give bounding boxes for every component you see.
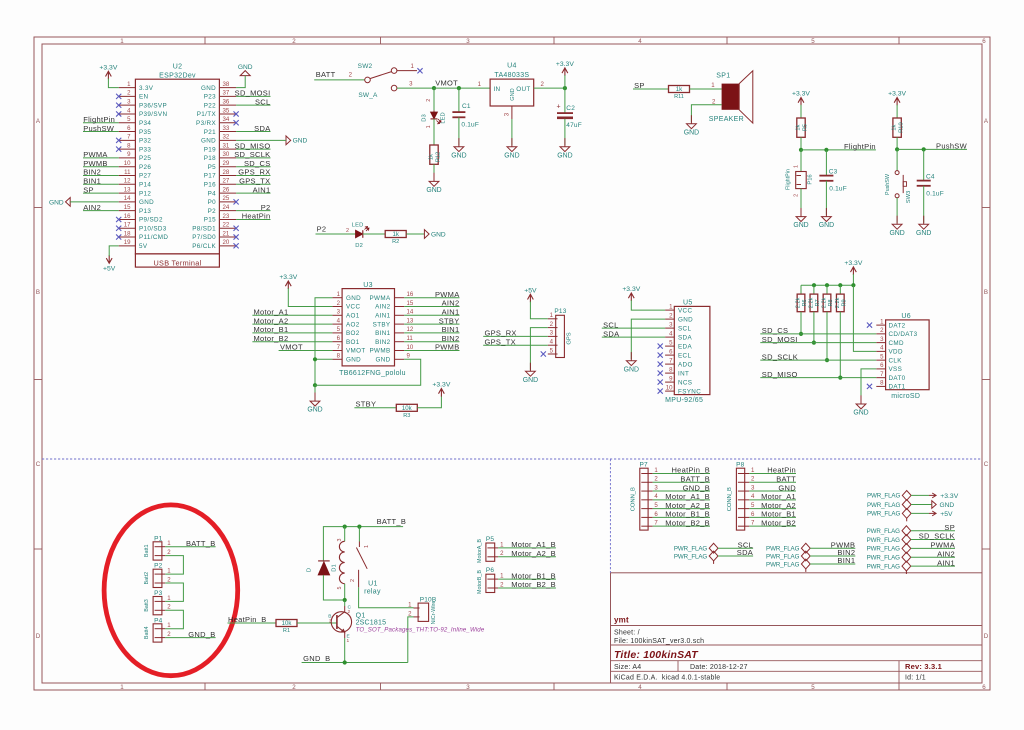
ic U2 left pin numbers xyxy=(124,81,131,246)
wire U2 PWMA xyxy=(83,157,119,159)
label BIN2 right xyxy=(442,334,460,343)
label AIN2 xyxy=(83,203,101,212)
svg-text:2.2k: 2.2k xyxy=(822,297,828,308)
svg-text:D: D xyxy=(984,633,989,640)
svg-text:10: 10 xyxy=(407,344,414,351)
junction VMOT 1 xyxy=(432,86,436,90)
label FlightPin xyxy=(83,115,115,124)
ic U3 body xyxy=(342,289,394,366)
wire P7 BATT_B xyxy=(653,481,710,483)
wire pwr_flag SCL left xyxy=(718,547,753,549)
svg-text:2: 2 xyxy=(793,194,799,197)
wire D2 to R2 xyxy=(363,233,385,235)
ic U5 reference xyxy=(683,300,693,307)
svg-text:P0: P0 xyxy=(208,199,217,206)
svg-text:AIN2: AIN2 xyxy=(375,304,391,311)
frame column ticks xyxy=(205,37,899,690)
svg-text:D: D xyxy=(306,568,312,572)
connector P16 xyxy=(786,169,814,190)
wire node to SW3 xyxy=(896,149,898,170)
svg-text:Motor_B2_B: Motor_B2_B xyxy=(511,580,556,589)
junction U3 GND bottom xyxy=(313,383,317,387)
wire +3.3V to R5 xyxy=(800,105,802,118)
capacitor C3 xyxy=(819,168,847,192)
wire pwr_flag SDA left xyxy=(718,555,753,557)
relay U1 reference xyxy=(368,581,378,588)
ic U5 body xyxy=(674,306,710,394)
svg-text:R10: R10 xyxy=(898,122,904,132)
transistor Q1 2SC1815 xyxy=(328,600,351,663)
svg-text:36: 36 xyxy=(223,98,230,105)
svg-text:P1/TX: P1/TX xyxy=(197,111,217,118)
svg-text:HeatPin: HeatPin xyxy=(767,466,796,475)
svg-text:P25: P25 xyxy=(139,155,151,162)
svg-text:1: 1 xyxy=(167,568,171,575)
ground D3 branch xyxy=(426,173,441,194)
svg-text:P16: P16 xyxy=(808,174,814,184)
svg-text:SW3: SW3 xyxy=(906,191,912,204)
svg-text:PWR_FLAG: PWR_FLAG xyxy=(867,502,901,509)
svg-text:17: 17 xyxy=(124,222,131,229)
svg-text:GND: GND xyxy=(853,410,868,417)
svg-text:R8: R8 xyxy=(828,299,834,306)
label Motor_A1 xyxy=(254,308,289,317)
junction FlightPin C3 xyxy=(824,148,828,152)
wire P3 to P4 xyxy=(165,610,183,628)
svg-text:P7/SD0: P7/SD0 xyxy=(192,234,216,241)
svg-text:21: 21 xyxy=(223,230,230,237)
svg-text:2: 2 xyxy=(292,684,296,691)
svg-text:P9/SD2: P9/SD2 xyxy=(139,217,163,224)
svg-text:0.1uF: 0.1uF xyxy=(829,186,847,193)
wire U3 Motor_B1 xyxy=(252,332,332,334)
svg-text:SD_SCLK: SD_SCLK xyxy=(919,532,955,541)
svg-text:11: 11 xyxy=(407,335,414,342)
label PWMA xyxy=(83,150,108,159)
svg-text:AIN1: AIN1 xyxy=(442,308,460,317)
svg-text:C1: C1 xyxy=(462,103,471,110)
wire node to P16 xyxy=(800,150,802,172)
resistor R9 pull-up xyxy=(835,294,847,312)
connector P8 CONN_B xyxy=(727,461,755,530)
svg-text:D3: D3 xyxy=(422,114,428,121)
svg-text:AO1: AO1 xyxy=(346,313,360,320)
label pwr_flag BIN1 xyxy=(837,556,855,565)
ic U3 left pin numbers xyxy=(337,291,341,360)
svg-text:PWMB: PWMB xyxy=(435,343,460,352)
wire VMOT to C1 xyxy=(458,88,460,112)
svg-text:0.1uF: 0.1uF xyxy=(461,121,479,128)
svg-text:GND: GND xyxy=(375,357,390,364)
svg-text:SW2: SW2 xyxy=(358,63,373,70)
svg-text:CONN_B: CONN_B xyxy=(727,487,733,511)
svg-text:USB Terminal: USB Terminal xyxy=(153,258,201,267)
pwr_flag SD_SCLK xyxy=(867,535,911,545)
svg-text:10k: 10k xyxy=(402,405,413,412)
svg-text:SP: SP xyxy=(944,523,955,532)
svg-text:Rev: 3.3.1: Rev: 3.3.1 xyxy=(905,662,942,671)
svg-text:P14: P14 xyxy=(139,181,151,188)
svg-text:GND: GND xyxy=(684,129,699,136)
no-connect x U6 pins 1 8 xyxy=(867,323,872,390)
svg-text:Motor_A2: Motor_A2 xyxy=(761,501,796,510)
svg-text:24: 24 xyxy=(223,204,230,211)
svg-text:+5V: +5V xyxy=(524,288,537,295)
svg-text:BATT: BATT xyxy=(316,70,336,79)
led D2 xyxy=(352,222,369,248)
svg-text:32: 32 xyxy=(223,134,230,141)
svg-text:VDD: VDD xyxy=(889,349,903,356)
svg-text:1k: 1k xyxy=(892,124,898,130)
svg-text:P23: P23 xyxy=(204,94,216,101)
wire rail to R8 xyxy=(826,285,828,294)
svg-text:Motor_A2: Motor_A2 xyxy=(254,316,289,325)
svg-text:AIN2: AIN2 xyxy=(442,299,460,308)
svg-text:BATT_B: BATT_B xyxy=(680,474,710,483)
label P7 Motor_B1_B xyxy=(665,510,710,519)
wire rail to VDD pin4 xyxy=(853,285,876,351)
junction R9 bus xyxy=(838,376,842,380)
label GPS_RX xyxy=(485,329,517,338)
regulator U4 value TA48033S xyxy=(494,72,529,79)
wire P7 Motor_B1_B xyxy=(653,516,710,518)
wire U2 pin32 to GND label xyxy=(236,139,286,141)
pwr_flag GND xyxy=(867,500,911,510)
wire P7 Motor_A1_B xyxy=(653,499,710,501)
svg-text:BIN1: BIN1 xyxy=(83,176,101,185)
resistor R10 xyxy=(892,118,905,137)
wire U3 VMOT xyxy=(279,350,333,352)
svg-text:P2: P2 xyxy=(317,225,327,234)
svg-text:GPS_TX: GPS_TX xyxy=(239,176,270,185)
ic U2 reference xyxy=(173,64,183,71)
global label GND U2 pin32 xyxy=(286,136,307,145)
svg-text:Batt4: Batt4 xyxy=(144,627,150,640)
no-connect x SW2 pin1 xyxy=(417,68,422,73)
svg-text:P4: P4 xyxy=(208,190,217,197)
ic U5 pin stubs xyxy=(665,310,674,391)
pwr_flag +5V xyxy=(867,509,911,519)
svg-text:P8: P8 xyxy=(736,461,745,468)
wire P2 to P3 xyxy=(165,583,183,601)
wire pwr_flag BIN2 xyxy=(810,555,855,557)
pin number U4 1 xyxy=(478,81,482,88)
svg-text:SPEAKER: SPEAKER xyxy=(709,116,744,123)
svg-text:GND: GND xyxy=(940,502,955,509)
connector P4 Batt4 xyxy=(144,617,171,642)
label SD_CS xyxy=(244,159,271,168)
svg-text:C: C xyxy=(984,461,989,468)
svg-text:VCC: VCC xyxy=(678,307,692,314)
svg-text:GND: GND xyxy=(201,138,216,145)
wire SW2 pin1 xyxy=(397,70,417,72)
ground U5 xyxy=(624,352,639,373)
svg-text:BIN1: BIN1 xyxy=(375,330,391,337)
wire U2 SDA xyxy=(236,131,270,133)
svg-text:2: 2 xyxy=(426,99,432,102)
wire pwr_flag +3.3V xyxy=(911,494,929,496)
ic U5 pin numbers xyxy=(666,303,673,391)
svg-text:2: 2 xyxy=(167,576,171,583)
svg-text:6: 6 xyxy=(982,684,986,691)
svg-text:relay: relay xyxy=(364,588,381,595)
svg-text:16: 16 xyxy=(407,291,414,298)
svg-text:Id: 1/1: Id: 1/1 xyxy=(905,675,926,682)
no-connect x U5 pins 5-10 xyxy=(658,344,663,394)
pwr_flag SDA left xyxy=(674,551,718,561)
title block id xyxy=(905,675,926,682)
svg-text:GND: GND xyxy=(624,366,639,373)
label SCL U5 xyxy=(603,320,619,329)
pwr_flag BIN2 xyxy=(766,551,810,561)
svg-text:Motor_A1: Motor_A1 xyxy=(254,308,289,317)
title block size/date xyxy=(614,664,748,671)
svg-text:SD_SCLK: SD_SCLK xyxy=(234,150,270,159)
svg-text:PWMA: PWMA xyxy=(370,295,391,302)
junction +3.3V C2 xyxy=(563,86,567,90)
svg-text:Size: A4: Size: A4 xyxy=(614,664,641,671)
svg-text:P6: P6 xyxy=(486,567,495,574)
svg-text:FlightPin: FlightPin xyxy=(786,169,792,190)
wire SP1 pin2 to GND xyxy=(691,105,721,122)
svg-text:5: 5 xyxy=(811,38,815,45)
wire P8 Motor_B1 xyxy=(749,516,796,518)
ground U4 xyxy=(504,138,519,159)
svg-text:10: 10 xyxy=(124,160,131,167)
label SD_MISO U6 xyxy=(762,370,798,379)
svg-text:10: 10 xyxy=(666,384,673,391)
svg-text:P12: P12 xyxy=(139,190,151,197)
relay U1 contact xyxy=(350,527,370,588)
wire FlightPin net xyxy=(801,149,876,151)
svg-text:3.3V: 3.3V xyxy=(139,85,154,92)
wire +3.3V to C2 xyxy=(564,88,566,113)
svg-text:R3: R3 xyxy=(403,413,410,419)
label SDA U5 xyxy=(603,329,619,338)
svg-text:PWMA: PWMA xyxy=(435,290,460,299)
svg-text:1: 1 xyxy=(167,540,171,547)
ic U2 left pin stubs xyxy=(119,88,136,246)
resistor R1 xyxy=(276,620,297,635)
wire Motor_A2_B xyxy=(498,556,556,558)
svg-text:FSYNC: FSYNC xyxy=(678,388,701,395)
svg-text:P17: P17 xyxy=(204,173,216,180)
wire R5 to FlightPin node xyxy=(800,137,802,150)
junction rail R7 xyxy=(812,283,816,287)
svg-text:TO_SOT_Packages_THT:TO-92_Inli: TO_SOT_Packages_THT:TO-92_Inline_Wide xyxy=(356,627,485,634)
svg-text:38: 38 xyxy=(223,81,230,88)
svg-text:PushSW: PushSW xyxy=(885,173,891,195)
label SD_MOSI U6 xyxy=(762,335,798,344)
svg-text:23: 23 xyxy=(223,213,230,220)
resistor R2 xyxy=(385,231,406,246)
ic U6 body xyxy=(886,320,930,390)
wire U2 PushSW xyxy=(83,131,119,133)
svg-text:P35: P35 xyxy=(139,129,151,136)
svg-text:B: B xyxy=(36,289,40,296)
svg-text:ESP32Dev: ESP32Dev xyxy=(159,72,196,79)
label P8 Motor_B1 xyxy=(761,510,796,519)
pwr_flag BIN1 xyxy=(766,559,810,569)
svg-text:P2: P2 xyxy=(261,203,271,212)
pin number D2 2 xyxy=(346,228,349,234)
label pwr_flag SD_SCLK xyxy=(919,532,955,541)
svg-text:28: 28 xyxy=(223,169,230,176)
wire P16 to GND xyxy=(800,189,802,215)
svg-text:1: 1 xyxy=(426,125,432,128)
svg-text:FlightPin: FlightPin xyxy=(844,142,876,151)
svg-text:U5: U5 xyxy=(683,300,693,307)
wire U3 BIN2 right xyxy=(404,341,459,343)
svg-text:5V: 5V xyxy=(139,243,148,250)
wire PushSW net xyxy=(897,148,967,150)
junction U3 GND pin8 xyxy=(313,357,317,361)
wire R6 to bus xyxy=(800,312,802,334)
label P8 HeatPin xyxy=(767,466,796,475)
label pwr_flag SCL left xyxy=(738,540,754,549)
svg-text:BO1: BO1 xyxy=(346,339,360,346)
pwr_flag stub right nets xyxy=(905,571,907,574)
label SD_MOSI xyxy=(235,89,271,98)
junction R6 bus xyxy=(799,332,803,336)
label GPS_TX xyxy=(239,176,270,185)
svg-text:Motor_B1_B: Motor_B1_B xyxy=(511,571,556,580)
power GND U2 pin38 xyxy=(238,64,253,76)
wire +3.3V to R10 xyxy=(896,105,898,118)
svg-text:BIN2: BIN2 xyxy=(375,339,391,346)
wire U2 BIN1 xyxy=(83,183,119,185)
ic U2 ESP32Dev body xyxy=(135,79,219,267)
wire pwr_flag PWMB xyxy=(810,547,855,549)
wire R10 to PushSW node xyxy=(896,137,898,149)
svg-text:P26: P26 xyxy=(139,164,151,171)
svg-text:BATT: BATT xyxy=(776,474,796,483)
svg-text:5: 5 xyxy=(811,684,815,691)
svg-text:P5: P5 xyxy=(208,164,217,171)
svg-text:15: 15 xyxy=(124,204,131,211)
svg-text:+5V: +5V xyxy=(940,511,953,518)
power +3.3V PushSW xyxy=(888,91,906,106)
pwr_flag SP xyxy=(867,526,911,536)
label AIN1 xyxy=(253,185,271,194)
title block title 100kinSAT xyxy=(614,649,699,661)
svg-text:1: 1 xyxy=(120,38,124,45)
svg-text:PWR_FLAG: PWR_FLAG xyxy=(867,528,901,535)
svg-text:AIN2: AIN2 xyxy=(937,549,955,558)
label P7 BATT_B xyxy=(680,474,710,483)
label pwr_flag PWMB xyxy=(831,540,856,549)
svg-text:P22: P22 xyxy=(204,102,216,109)
svg-text:LED: LED xyxy=(352,222,364,228)
wire VMOT to D3 xyxy=(433,88,435,110)
pwr_flag PWMB xyxy=(766,543,810,553)
ic U3 right pin numbers xyxy=(407,291,414,360)
svg-text:SD_SCLK: SD_SCLK xyxy=(762,352,798,361)
wire U3 GND down xyxy=(314,385,316,399)
wire SD_MOSI U6 xyxy=(760,342,876,344)
wire R8 to bus xyxy=(826,312,828,360)
label pwr_flag PWMA xyxy=(930,541,955,550)
svg-text:+3.3V: +3.3V xyxy=(556,61,574,68)
wire P8 HeatPin xyxy=(749,473,796,475)
svg-text:PWR_FLAG: PWR_FLAG xyxy=(674,546,708,553)
svg-text:U1: U1 xyxy=(368,581,378,588)
svg-text:10k: 10k xyxy=(282,620,293,627)
svg-text:1k: 1k xyxy=(676,86,683,93)
wire rail to R6 xyxy=(800,285,802,294)
svg-text:GND_B: GND_B xyxy=(188,630,215,639)
label P8 Motor_A2 xyxy=(761,501,796,510)
svg-text:R6: R6 xyxy=(802,299,808,306)
label SP net xyxy=(634,81,645,90)
wire R7 to bus xyxy=(813,312,815,343)
svg-text:GND: GND xyxy=(916,230,931,237)
svg-text:Motor_A1_B: Motor_A1_B xyxy=(665,492,710,501)
svg-text:Batt1: Batt1 xyxy=(144,545,150,558)
svg-text:SDA: SDA xyxy=(603,329,619,338)
svg-text:R12: R12 xyxy=(435,152,441,162)
svg-text:Motor_B2: Motor_B2 xyxy=(254,334,289,343)
svg-text:13: 13 xyxy=(124,186,131,193)
svg-text:30: 30 xyxy=(223,151,230,158)
junction R7 bus xyxy=(812,341,816,345)
svg-text:LED: LED xyxy=(441,112,447,123)
label STBY net xyxy=(356,399,377,408)
svg-text:C2: C2 xyxy=(566,105,575,112)
wire U2 SP xyxy=(83,192,119,194)
wire U2 SD_SCLK xyxy=(236,157,270,159)
svg-text:AIN1: AIN1 xyxy=(375,313,391,320)
ground P16 xyxy=(793,208,808,229)
wire U3 BIN1 right xyxy=(404,332,459,334)
svg-text:P13: P13 xyxy=(139,208,151,215)
no-connect x U2 left pins xyxy=(116,94,121,240)
wire GND_B battery xyxy=(165,637,215,639)
svg-text:1: 1 xyxy=(364,545,370,548)
svg-text:P3: P3 xyxy=(154,590,163,597)
svg-text:GND: GND xyxy=(523,377,538,384)
connector P7 CONN_B xyxy=(630,461,658,530)
svg-text:HeatPin_B: HeatPin_B xyxy=(671,466,710,475)
power +3.3V U5 xyxy=(622,286,640,301)
wire +3.3V to U3 VCC xyxy=(288,288,332,306)
svg-text:VCC: VCC xyxy=(346,304,360,311)
wire +5V to P13 pin1 xyxy=(530,302,547,319)
svg-text:DAT2: DAT2 xyxy=(889,322,906,329)
label HeatPin_B net xyxy=(228,615,267,624)
wire GND_B relay xyxy=(302,662,408,664)
resistor R6 pull-up xyxy=(796,294,808,312)
svg-text:GND: GND xyxy=(49,199,64,206)
frame row labels xyxy=(36,118,989,640)
label P8 Motor_B2 xyxy=(761,518,796,527)
pwr_flag stub middle xyxy=(805,569,807,572)
svg-text:GPS_TX: GPS_TX xyxy=(485,337,516,346)
label P8 Motor_A1 xyxy=(761,492,796,501)
svg-text:34: 34 xyxy=(223,116,230,123)
power +3.3V flag symbol xyxy=(929,493,959,500)
transistor Q1 footprint xyxy=(356,627,485,634)
global label GND P2 row xyxy=(424,230,445,239)
svg-text:PWMA: PWMA xyxy=(83,150,108,159)
svg-text:Q1: Q1 xyxy=(356,612,366,619)
wire U3 Motor_A1 xyxy=(252,314,332,316)
svg-text:ECL: ECL xyxy=(678,352,691,359)
svg-text:R2: R2 xyxy=(392,239,399,245)
svg-text:PWR_FLAG: PWR_FLAG xyxy=(867,563,901,570)
wire C4 to GND xyxy=(923,186,925,223)
svg-text:U2: U2 xyxy=(173,64,183,71)
